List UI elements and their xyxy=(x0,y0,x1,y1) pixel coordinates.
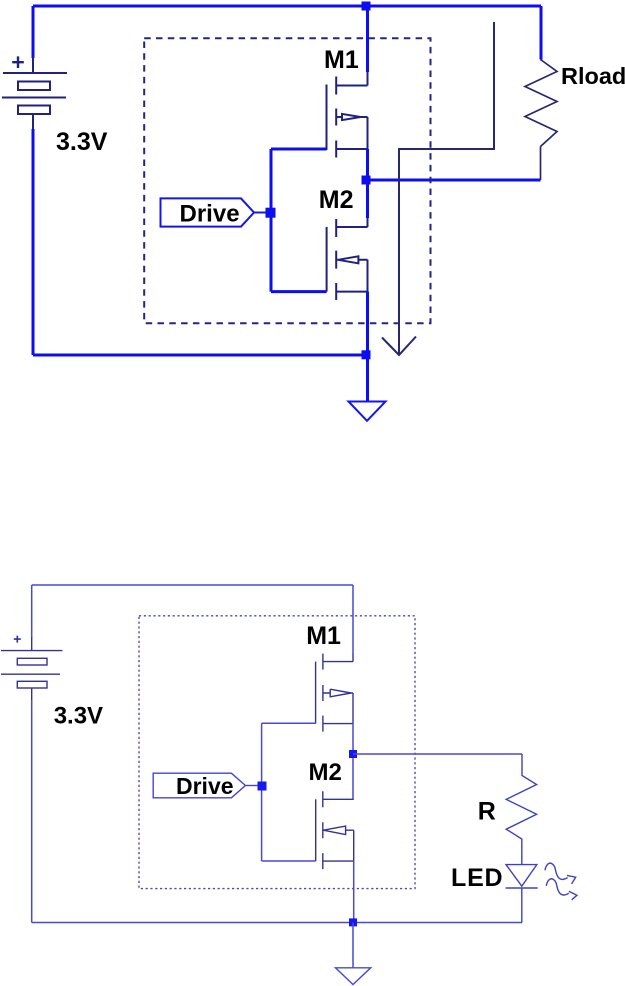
diode LED D1 (bottom circuit) xyxy=(506,865,538,923)
wire: output net from M1/M2 midpoint to Rload xyxy=(368,179,541,182)
wire: junction to ground symbol (bottom) xyxy=(352,923,354,968)
wire: Drive flag to gate bus xyxy=(254,212,267,214)
svg-text:Drive: Drive xyxy=(180,201,240,228)
wire: M1 gate lead xyxy=(271,148,327,151)
ground (top circuit) xyxy=(349,402,386,421)
wire: M2 source down to bottom rail xyxy=(366,292,369,355)
transistor M1 (PMOS, top circuit) xyxy=(327,71,368,158)
svg-text:Drive: Drive xyxy=(176,773,234,799)
ground (bottom circuit) xyxy=(336,968,371,985)
node: ground junction (bottom circuit) xyxy=(349,918,357,926)
wire: top rail (bottom circuit) xyxy=(32,584,353,586)
svg-text:3.3V: 3.3V xyxy=(54,703,103,730)
node: junction of top rail and M1 drain xyxy=(362,2,371,11)
node: Drive junction on gate bus (bottom) xyxy=(258,782,267,791)
svg-text:M2: M2 xyxy=(309,759,342,786)
transistor M2 (NMOS, bottom circuit) xyxy=(316,791,354,869)
wire: battery negative lead down to bottom rail xyxy=(32,129,35,355)
net flag Drive (top circuit) xyxy=(161,198,255,226)
wire: battery positive lead (bottom circuit) xyxy=(31,585,33,638)
wire: rail down to M1 drain (bottom circuit) xyxy=(352,585,354,653)
svg-text:Rload: Rload xyxy=(561,63,625,89)
resistor Rload xyxy=(525,60,557,147)
wire: right vertical from top rail to Rload xyxy=(540,6,543,60)
wire: output net to R branch (bottom circuit) xyxy=(353,753,522,755)
wire: junction to ground symbol xyxy=(366,355,369,402)
wire: M1 source down through output junction to M2 drain xyxy=(366,149,369,218)
wire: battery positive lead (left vertical, top) xyxy=(32,6,35,58)
wire: gate bus vertical connecting M1 and M2 gates xyxy=(270,149,273,292)
wire: M1 gate lead (bottom) xyxy=(262,722,316,724)
wire: M1 source down through output junction to M2 drain (bottom) xyxy=(352,724,354,800)
wire: bottom rail from battery - to ground junction xyxy=(33,354,368,357)
wire: M2 source to bottom rail (bottom circuit) xyxy=(353,861,355,922)
node: output junction at M1 source / M2 drain xyxy=(362,176,371,185)
wire: M2 gate lead xyxy=(271,290,327,293)
LED light ray arrow 2 xyxy=(546,879,577,900)
wire: top rail from battery + to Rload branch xyxy=(33,5,541,8)
wire: M2 gate lead (bottom) xyxy=(262,860,316,862)
wire: gate bus vertical (bottom circuit) xyxy=(261,723,263,861)
current flow arrow annotation (top circuit) xyxy=(382,22,494,355)
svg-text:M2: M2 xyxy=(319,186,354,214)
battery V2 3.3V (bottom circuit) xyxy=(1,636,62,701)
battery V1 3.3V (top circuit) xyxy=(2,56,67,130)
node: ground junction on bottom rail xyxy=(362,350,371,359)
wire: Rload bottom lead to output node xyxy=(540,147,542,181)
dashed box: driver block outline (top circuit) xyxy=(144,38,430,323)
svg-text:M1: M1 xyxy=(324,46,359,74)
svg-text:LED: LED xyxy=(451,864,503,892)
wire: M1 drain to top rail xyxy=(366,6,369,72)
wire: battery negative lead down to bottom rail (bottom circuit) xyxy=(31,700,33,923)
transistor M1 (PMOS, bottom circuit) xyxy=(316,653,353,732)
svg-text:M1: M1 xyxy=(306,622,341,650)
net flag Drive (bottom circuit) xyxy=(153,773,245,798)
LED light ray arrow 1 xyxy=(545,863,576,884)
wire: bottom rail (bottom circuit) xyxy=(32,922,522,924)
wire: Drive flag to gate bus (bottom) xyxy=(245,785,258,787)
node: output junction (bottom circuit) xyxy=(349,750,357,758)
resistor R (bottom circuit) xyxy=(506,754,536,865)
svg-text:3.3V: 3.3V xyxy=(56,128,108,156)
svg-text:R: R xyxy=(478,798,496,826)
transistor M2 (NMOS, top circuit) xyxy=(327,218,368,300)
dotted box: driver block outline (bottom circuit) xyxy=(139,616,415,889)
node: Drive junction on gate bus xyxy=(266,208,276,218)
